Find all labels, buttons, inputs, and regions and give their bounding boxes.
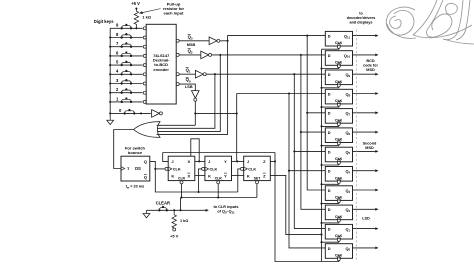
+5V terminal circle [173,228,176,231]
node CLR Y [217,196,219,198]
output bubble Q2 [176,53,179,56]
flip-flop FF-X CLK bubble [165,167,168,170]
svg-text:D: D [328,53,331,58]
svg-text:D: D [328,72,331,77]
D flip-flop Q6 [325,128,352,143]
svg-text:1 kΩ: 1 kΩ [180,219,188,223]
wire Q7 output arrow [353,111,379,114]
svg-text:CLK: CLK [248,167,256,171]
encoder U1 74LS147 [146,24,176,104]
svg-text:+5 V: +5 V [131,1,140,6]
node clock tap Q9 [320,87,322,89]
input bubble [143,64,146,67]
node bus key 1 [109,101,111,103]
svg-text:BCD: BCD [366,59,374,63]
D flip-flop Q5 [325,147,352,162]
node B0 right tap [288,92,290,94]
wire Q0 down [179,84,195,91]
wire CLK stub Q7 [322,125,339,126]
wire B2 bus to Q2 D [301,55,325,209]
svg-text:D: D [328,34,331,39]
flip-flop FF-Z CLK bubble [241,167,244,170]
node clock tap Q6 [320,145,322,147]
wire X loop [191,139,199,162]
svg-text:each input: each input [163,10,184,15]
node clear bus join [179,209,181,211]
arrow from note to resistor [142,9,161,13]
wire key 3 row [110,83,142,85]
key switch 2 [116,87,132,94]
svg-text:D: D [328,169,331,174]
key switch 4 [116,69,132,76]
svg-text:CLR: CLR [178,177,186,181]
key switch 6 [116,50,132,57]
wire FF-X CLR drop [181,184,183,198]
flip-flop FF-X CLR bubble [180,181,183,184]
svg-text:K: K [208,173,211,178]
node Y to bridge [236,160,238,162]
wire to FF-X CLK [155,168,165,170]
flip-flop FF-Z [244,156,271,180]
D flip-flop Q5 labels [328,149,351,162]
input bubble [143,91,146,94]
node B1 tap [214,73,216,75]
wire stub Q7 D [307,112,325,114]
output bubble Q0 [176,83,179,86]
flip-flop FF-Z SET bubble [256,181,259,184]
flip-flop FF-X [168,156,195,180]
node clk FF-X [154,168,156,170]
wire OR output to one-shot T [114,130,134,169]
node B1 right tap [293,73,295,75]
D flip-flop Q4 [325,167,352,182]
node clock tap Q4 [320,183,322,185]
key switch 3 [116,78,132,85]
wire CLK stub Q0 [322,261,339,262]
wire B2 line to Q10 D [212,54,326,56]
wire B1 line to Q9 D [206,73,325,75]
node B3 to Q7 [306,112,308,114]
D flip-flop Q2 [325,205,352,220]
wire CLR bus to clear line [180,198,182,211]
input bubble [143,100,146,103]
node Z [274,160,276,162]
ground key bus [107,117,114,125]
Q5 CLK bubble [337,161,340,164]
flip-flop FF-X pin labels [168,159,190,181]
node bus key 8 [109,36,111,38]
input bubble [143,36,146,39]
node clock tap Q8 [320,106,322,108]
wire CLK stub Q10 [322,68,339,69]
svg-text:K: K [171,173,174,178]
output bubble Q1 [176,73,179,76]
node B3 tap [227,40,229,42]
wire CLK stub Q5 [322,164,339,165]
node clk FF-Y [198,191,200,193]
svg-text:D: D [328,111,331,116]
wire CLK stub Q2 [322,222,339,223]
D flip-flop Q0 labels [328,246,351,258]
node clock tap Q2 [320,222,322,224]
wire CLR bus [181,197,257,199]
wire key 8 row [110,37,142,39]
wire Ybar to FF-Z K [232,174,244,176]
wire to FF-Y CLK [199,169,202,192]
wire OR input 1 (LSB) [157,124,196,126]
node Zbar join [320,234,322,236]
wire CLK stub Q9 [322,87,339,88]
Q7 CLK bubble [337,123,340,126]
D flip-flop Q6 labels [328,130,351,143]
svg-text:Digit keys: Digit keys [94,19,114,24]
wire feedback rail [163,152,275,154]
wire Q4 output arrow [353,169,379,172]
wire OS Q clock rail [150,161,238,192]
D flip-flop Q7 [325,109,352,124]
D flip-flop Q7 labels [328,111,351,124]
svg-text:OS: OS [135,166,141,171]
OR gate key-press detector (mirrored, output left) [134,122,160,138]
flip-flop FF-Y CLR bubble [217,181,220,184]
input bubble [143,27,146,30]
Q11 CLK bubble [337,45,340,48]
svg-text:D: D [328,188,331,193]
wire Q1 output arrow [353,227,379,230]
inverter A (MSB) [209,37,217,45]
wire CLK stub Q6 [322,145,339,146]
Q9 CLK bubble [337,84,340,87]
wire FF-Z SET drop [256,184,258,198]
wire key 6 row [110,55,142,57]
wire key 5 row [110,64,142,66]
node bridge junction [236,112,238,114]
node clock tap Q10 [320,67,322,69]
node bus key 2 [109,92,111,94]
svg-text:D: D [328,130,331,135]
svg-text:J: J [247,159,249,164]
wire to FF-Z CLK [238,169,241,192]
inverter B [201,51,209,59]
D flip-flop Q0 [325,244,352,259]
svg-text:Q: Q [144,159,147,164]
key switch 8 [116,32,132,39]
wire OR input 4 (B3) [157,41,228,135]
node CLR X [180,196,182,198]
node clear pull-up [173,209,175,211]
Q1 CLK bubble [337,238,340,241]
svg-text:LSB: LSB [185,85,193,89]
Q8 CLK bubble [337,103,340,106]
node B2 tap [219,54,221,56]
svg-text:Y: Y [224,173,227,178]
D flip-flop Q8 labels [328,91,351,104]
wire Q10 output arrow [353,54,379,57]
node B0 to Q4 [288,170,290,172]
key switch 9 [116,23,132,30]
svg-text:CLR: CLR [215,177,223,181]
svg-text:J: J [171,159,173,164]
svg-text:bounce: bounce [128,150,143,155]
svg-text:and displays: and displays [349,20,372,24]
node clock tap Q1 [320,241,322,243]
node B1 to Q5 [293,150,295,152]
node key 0 output [140,112,142,114]
node +5V terminal [135,8,137,10]
node bus key 5 [109,64,111,66]
flip-flop FF-Z pin labels [244,159,266,181]
key switch 5 [116,60,132,67]
svg-text:D: D [328,149,331,154]
one-shot OS [121,156,150,181]
one-shot pin labels [121,167,125,171]
wire Z output [270,160,275,162]
wire key 4 row [110,73,142,75]
node X output [198,160,200,162]
svg-text:Y: Y [224,159,227,164]
input bubble [143,45,146,48]
wire Q9 output arrow [353,73,379,76]
svg-text:D: D [328,207,331,212]
node clock tap Q5 [320,164,322,166]
svg-text:+5 V: +5 V [170,233,179,238]
wire MSB line to Q11 D [228,36,326,41]
wire CLEAR line arrow [147,209,209,212]
D flip-flop Q1 labels [328,227,351,240]
key switch 1 [116,96,132,103]
svg-text:K: K [247,173,250,178]
key switch CLEAR [158,206,168,212]
svg-text:to CLR inputs: to CLR inputs [214,205,239,209]
node bus key 3 [109,82,111,84]
Q6 CLK bubble [337,142,340,145]
wire key 0 row [110,112,151,114]
svg-text:MSD: MSD [366,68,375,72]
wire B1 bus to Q1 D [294,74,325,228]
wire Y to FF-Z J [232,160,244,162]
wire Q0 output arrow [353,247,379,250]
svg-text:decoder/drivers: decoder/drivers [347,16,376,20]
input bubble [143,54,146,57]
input bubble [143,73,146,76]
Q0 CLK bubble [337,258,340,261]
dashed group separator line [356,30,358,263]
output bubble Q3 [176,39,179,42]
wire CLK stub Q11 [322,48,339,49]
wire X to FF-Y J [195,160,205,162]
wire B0 to Q8 D [237,93,326,95]
svg-text:MSB: MSB [187,43,196,47]
node bus key 7 [109,46,111,48]
svg-text:encoder: encoder [153,67,169,72]
wire key common bus [109,28,111,117]
wire bridge vertical [236,94,238,162]
inverter E (key 0) [152,110,160,118]
flip-flop FF-Y pin labels [205,159,227,181]
svg-text:Second: Second [363,142,377,146]
inverter D (LSB, pointing down) [192,91,200,99]
wire Q5 output arrow [353,150,379,153]
D flip-flop Q3 labels [328,188,351,201]
node clock tap Q3 [320,203,322,205]
wire Q6 output arrow [353,131,379,134]
wire Q8 output arrow [353,92,379,95]
wire CLK stub Q8 [322,106,339,107]
D flip-flop Q2 labels [328,207,351,220]
svg-text:D: D [328,91,331,96]
svg-text:SET: SET [254,177,262,181]
Q10 CLK bubble [337,65,340,68]
svg-text:X: X [187,159,190,164]
wire LSB to bridge [195,112,236,114]
wire Xbar to FF-Y K [195,174,205,176]
wire key 9 row [110,27,142,29]
decorative flourish (scanned signature) [386,0,474,44]
wire Zbar route [270,175,321,234]
D flip-flop Q4 labels [328,169,351,182]
wire Q3 to inverter [179,40,209,42]
D flip-flop Q8 [325,89,352,104]
wire Q1 to inverter [179,73,195,75]
wire Q3 output arrow [353,189,379,192]
wire key 7 row [110,46,142,48]
node bus key 4 [109,73,111,75]
svg-text:J: J [208,159,210,164]
wire Q2 to inverter [179,54,201,56]
flip-flop FF-Y CLK bubble [202,167,205,170]
svg-text:CLK: CLK [173,167,181,171]
key switch 0 [119,108,135,115]
resistor R2 1 kOhm [172,210,176,228]
wire clock bus [321,49,323,261]
node LSB / key0 junction [194,112,196,114]
wire stub Q4 D [289,170,325,172]
ground CLEAR [143,210,150,218]
inverter C [195,70,203,78]
wire Q2 output arrow [353,208,379,211]
D flip-flop Q10 labels [328,53,351,66]
node bus key 6 [109,55,111,57]
svg-text:CLK: CLK [210,167,218,171]
wire OR input 2 (B1) [157,74,215,128]
svg-text:MSD: MSD [365,146,374,150]
D flip-flop Q3 [325,186,352,201]
wire key 1 row [110,101,142,103]
D flip-flop Q10 [325,51,352,66]
wire FF-Y CLR drop [217,184,219,198]
wire CLK stub Q4 [322,183,339,184]
D flip-flop Q11 [325,31,352,46]
node clock tap Q7 [320,125,322,127]
input bubble [143,82,146,85]
Q4 CLK bubble [337,181,340,184]
flip-flop FF-Y [205,156,232,180]
node B2 to Q6 [300,131,302,133]
wire CLK stub Q3 [322,203,339,204]
wire Q11 output arrow [353,34,379,37]
svg-text:CLEAR: CLEAR [156,200,170,205]
wire B0 bus to Q0 D [289,94,325,248]
wire rail to FF-X J [163,153,169,162]
resistor R1 1 k&#937; pull-up [134,9,138,26]
wire LSB vertical [194,101,196,125]
wire resistor to key row 9 [135,26,137,28]
D flip-flop Q9 labels [328,72,351,85]
wire stub Q6 D [301,131,325,133]
svg-text:1 kΩ: 1 kΩ [142,15,152,20]
wire B3 bus to Q3 D [307,36,325,190]
D flip-flop Q9 [325,70,352,85]
Q2 CLK bubble [337,219,340,222]
wire stub Q5 D [294,150,325,152]
node bus key 0 [109,112,111,114]
node pull-up junction [135,27,137,29]
D flip-flop Q1 [325,224,352,239]
svg-text:D: D [328,227,331,232]
node B3 right tap [306,35,308,37]
svg-text:code for: code for [363,64,379,68]
svg-text:Q: Q [144,175,147,180]
key switch 7 [116,41,132,48]
node B2 right tap [300,54,302,56]
D flip-flop Q11 labels [328,34,351,47]
wire inverter A out [220,40,228,42]
wire CLK stub Q1 [322,241,339,242]
Q3 CLK bubble [337,200,340,203]
svg-text:D: D [328,246,331,251]
svg-text:X: X [187,173,190,178]
wire OR input 3 (B2) [157,55,220,131]
svg-text:LSD: LSD [362,216,370,220]
wire key 2 row [110,92,142,94]
wire Z to group clock [275,153,322,262]
